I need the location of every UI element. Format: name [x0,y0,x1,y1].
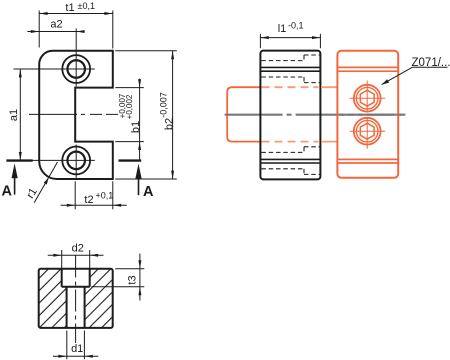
svg-text:d2: d2 [72,242,84,254]
svg-text:t1: t1 [65,2,74,14]
svg-text:A: A [2,183,13,199]
svg-text:Z071/...: Z071/... [412,57,450,69]
svg-text:r1: r1 [24,186,39,201]
svg-text:+0,007: +0,007 [118,93,127,118]
svg-text:t2: t2 [84,194,93,206]
svg-text:+0,1: +0,1 [96,190,114,200]
svg-text:a1: a1 [8,109,20,121]
svg-text:±0,1: ±0,1 [78,1,95,11]
svg-text:-0,1: -0,1 [288,21,304,31]
svg-text:-0,007: -0,007 [159,92,169,118]
svg-text:A: A [143,184,154,200]
svg-text:a2: a2 [50,18,62,30]
svg-text:b2: b2 [163,118,175,130]
svg-text:t3: t3 [126,275,138,284]
svg-text:d1: d1 [71,343,83,355]
svg-text:b1: b1 [130,121,142,133]
svg-text:l1: l1 [278,23,287,35]
